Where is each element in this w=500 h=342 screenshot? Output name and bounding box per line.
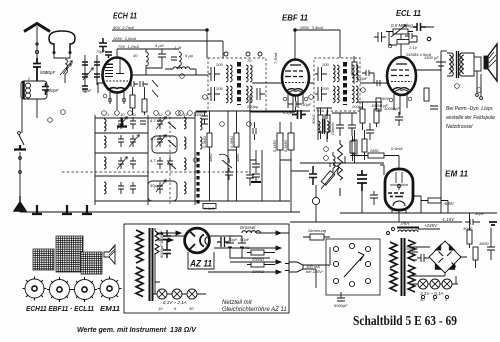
selector contact 1 xyxy=(333,246,338,251)
circled number g xyxy=(220,122,225,127)
node terminal bd3 xyxy=(445,295,448,298)
capacitor ECL grid a xyxy=(362,70,374,76)
selector contact 8 xyxy=(365,278,370,283)
node IFT1 terminals xyxy=(224,52,228,56)
capacitor trimmer 3 xyxy=(82,74,88,77)
svg-text:6 µµ: 6 µµ xyxy=(185,53,194,58)
resistor right 1 xyxy=(467,230,472,244)
resistor mid 1 xyxy=(318,115,323,132)
capacitor 3000pF psu xyxy=(163,230,171,245)
svg-text:anstelle der Feldspule: anstelle der Feldspule xyxy=(446,115,495,121)
node loop terminal left xyxy=(53,51,55,53)
svg-text:0,1MΩ: 0,1MΩ xyxy=(283,140,288,152)
node antenna terminal xyxy=(36,43,38,45)
tube AZ11 internals xyxy=(190,232,195,250)
rectifier bridge xyxy=(429,241,461,273)
wire grid link xyxy=(354,56,388,84)
svg-text:30: 30 xyxy=(133,53,138,58)
wire IFT2 top feed xyxy=(339,30,341,58)
svg-text:30µF: 30µF xyxy=(228,237,238,242)
switch arm 3 xyxy=(168,162,176,169)
wire AVC dashed xyxy=(62,171,250,173)
output transformer core xyxy=(457,51,459,78)
coil L1 oscillator xyxy=(65,57,67,73)
wire EBF11 anode top xyxy=(295,30,340,60)
switch osc xyxy=(152,80,158,97)
svg-text:285V 3,4mA: 285V 3,4mA xyxy=(299,25,323,30)
resistor 2000ohm xyxy=(251,262,264,267)
wire speaker terminals xyxy=(477,71,481,96)
capacitor elko 2 xyxy=(238,236,246,252)
jack circle xyxy=(312,197,319,204)
circled number e xyxy=(179,111,184,116)
capacitor IFT2 top xyxy=(315,67,327,81)
output transformer secondary xyxy=(460,53,468,76)
node terminal bd1 xyxy=(421,295,424,298)
capacitor IFT1 right xyxy=(257,88,265,100)
capacitor out xyxy=(430,106,438,109)
wire filament taps xyxy=(152,228,160,294)
node pin circles EBF11 xyxy=(283,97,308,101)
coil IFT1 secondary top xyxy=(246,65,252,82)
svg-text:Bei Perm.-Dyn. Ltspr.: Bei Perm.-Dyn. Ltspr. xyxy=(446,106,494,112)
svg-text:AZ 11: AZ 11 xyxy=(189,259,212,270)
socket layout EBF11 grid xyxy=(56,236,83,272)
capacitor screen a xyxy=(99,38,107,52)
resistor EM11 grid xyxy=(368,153,384,158)
capacitor det b2 bold xyxy=(292,110,306,119)
svg-text:4,7-30: 4,7-30 xyxy=(150,136,162,141)
circled number l xyxy=(309,95,314,100)
speaker cone xyxy=(488,44,497,81)
winding 7mA top xyxy=(398,230,418,232)
wire det rails xyxy=(210,111,292,201)
svg-text:2: 2 xyxy=(27,76,31,81)
resistor ECL11 grid xyxy=(352,62,357,75)
wire em aux xyxy=(354,130,356,163)
coil band B2 xyxy=(184,137,186,149)
svg-text:30µF: 30µF xyxy=(463,226,473,231)
circled number f xyxy=(194,158,199,163)
circled pin 12 xyxy=(324,147,329,161)
output transformer primary xyxy=(447,53,453,76)
resistor mid 3 xyxy=(360,109,365,123)
capacitor right top xyxy=(465,219,480,225)
wire ECH11 pins xyxy=(98,83,124,110)
coil can row2 xyxy=(152,136,177,153)
node pin circles ECL11 xyxy=(389,97,412,102)
selector contact 5 xyxy=(365,261,370,266)
capacitor 10uF xyxy=(288,101,302,107)
socket layout ECH11 grid xyxy=(33,249,54,270)
wire jack xyxy=(291,160,316,222)
capacitor tuned 4a xyxy=(118,182,124,194)
wire EM11 links xyxy=(350,156,399,176)
capacitor det d xyxy=(309,166,317,185)
core tuning dashed bar xyxy=(196,152,199,205)
wire rect links xyxy=(412,247,467,276)
capacitor IFT2 bottom xyxy=(315,87,327,101)
resistor EM11 2b xyxy=(362,139,367,152)
node loop terminal right xyxy=(69,51,71,53)
selector contact 4 xyxy=(333,261,338,266)
resistor osc 2 xyxy=(142,99,147,112)
wire psu exits xyxy=(208,233,281,272)
core IFT1 dashed bar xyxy=(237,62,241,105)
wire right column xyxy=(470,213,492,268)
ground bar left xyxy=(14,145,26,150)
trimmer arrow 8 xyxy=(63,64,71,74)
svg-text:3: 3 xyxy=(107,112,110,117)
speaker cone hatch xyxy=(489,52,496,67)
capacitor 10000pF xyxy=(395,112,403,126)
coil L3 xyxy=(179,52,181,66)
tube ECL11 envelope xyxy=(387,57,416,95)
svg-text:14Ω: 14Ω xyxy=(242,245,250,250)
svg-text:0,3MΩ: 0,3MΩ xyxy=(229,136,234,148)
potentiometer volume xyxy=(393,29,408,34)
tube EBF11 internals xyxy=(285,65,303,77)
ground tuning xyxy=(117,118,127,127)
svg-text:12: 12 xyxy=(158,112,163,117)
resistor em 3 xyxy=(428,198,441,203)
lamp heater 1 xyxy=(157,289,167,299)
capacitor IFT1 bottom xyxy=(208,87,220,101)
svg-text:200: 200 xyxy=(215,62,223,67)
trimmer arrow 5 xyxy=(156,135,166,147)
wire osc bottom xyxy=(133,87,145,115)
svg-text:13: 13 xyxy=(183,112,188,117)
svg-text:200µµ: 200µµ xyxy=(351,104,364,109)
wire bus -6.5V xyxy=(340,212,497,214)
node junction 90V xyxy=(206,29,209,32)
resistor 1,5k xyxy=(203,204,216,209)
coil tuned 1 xyxy=(104,119,106,131)
wire tuning rail A xyxy=(95,112,195,205)
capacitor mid 2 xyxy=(348,117,356,136)
wire antenna lead xyxy=(36,26,38,58)
resistor det 3b xyxy=(288,133,294,150)
svg-text:3,3V ~ 0,1A: 3,3V ~ 0,1A xyxy=(420,291,444,296)
svg-text:Sicherung: Sicherung xyxy=(308,228,327,233)
svg-text:1MΩ: 1MΩ xyxy=(235,153,240,162)
wire IFT1 to EBF11 xyxy=(252,82,282,84)
svg-text:EM 11: EM 11 xyxy=(445,169,468,179)
coil tuned 2 xyxy=(104,136,106,148)
transformer secondary zigzag xyxy=(408,240,415,292)
fuse xyxy=(310,234,324,240)
svg-text:50µF: 50µF xyxy=(240,237,250,242)
node pot terminal xyxy=(388,44,392,48)
capacitor trimmer 4 xyxy=(94,74,100,77)
svg-text:2000Ω: 2000Ω xyxy=(251,269,264,274)
wire det branch xyxy=(250,150,256,160)
tube EBF11 envelope xyxy=(282,60,309,96)
selector contact 6 xyxy=(333,278,338,283)
wire ECL11 pins xyxy=(394,93,407,115)
svg-text:EM11: EM11 xyxy=(100,304,120,313)
socket EBF11 base xyxy=(47,277,72,302)
selector contact 2 xyxy=(349,243,354,248)
ground G4 xyxy=(82,205,92,214)
svg-text:Gleichrichterröhre AZ 11: Gleichrichterröhre AZ 11 xyxy=(222,307,287,313)
svg-text:10: 10 xyxy=(420,297,425,302)
svg-text:+245V: +245V xyxy=(424,223,438,228)
svg-text:4 µH: 4 µH xyxy=(155,43,164,48)
svg-text:Werte gem. mit Instrument 138: Werte gem. mit Instrument 138 Ω/V xyxy=(77,325,197,334)
node EBF dot xyxy=(294,29,297,32)
coil antenna circles xyxy=(26,83,31,88)
antenna xyxy=(24,24,50,32)
capacitor tuned 3b xyxy=(130,157,136,169)
capacitor det e xyxy=(246,168,254,186)
coil IFT2 primary bottom xyxy=(333,86,339,103)
capacitor screen b xyxy=(105,52,112,58)
svg-text:4,7-30: 4,7-30 xyxy=(150,118,162,123)
svg-text:10µF: 10µF xyxy=(302,102,312,107)
lamp heater 2 xyxy=(172,289,182,299)
svg-text:Netzteil mit: Netzteil mit xyxy=(222,300,252,306)
svg-text:Gleichr.: Gleichr. xyxy=(330,121,335,135)
svg-text:10: 10 xyxy=(120,112,125,117)
tube EM11 internals xyxy=(390,172,408,190)
svg-text:EBF 11: EBF 11 xyxy=(282,13,308,23)
ground right top xyxy=(489,222,497,225)
capacitor tuned 2a xyxy=(118,135,124,147)
wire loop to coil xyxy=(54,52,70,58)
wire IFT1 feed xyxy=(206,30,208,58)
svg-text:30: 30 xyxy=(189,306,194,311)
tube ECH11 envelope xyxy=(103,58,132,93)
resistor mid 4 xyxy=(374,109,379,123)
wire em r3 xyxy=(421,201,448,214)
coil right col r1 xyxy=(200,118,202,130)
svg-text:6,3V ~ 2,1A: 6,3V ~ 2,1A xyxy=(163,300,187,305)
selector contact 3 xyxy=(365,246,370,251)
svg-text:200: 200 xyxy=(321,62,329,67)
capacitor elko 1 xyxy=(226,236,234,252)
svg-text:5000pF: 5000pF xyxy=(159,244,164,258)
wire 90V rail xyxy=(112,29,207,31)
wire psu mid xyxy=(230,252,275,265)
capacitor mid 3 xyxy=(366,123,374,140)
wire ECL grid xyxy=(360,73,388,83)
ground G3 xyxy=(62,205,72,214)
trimmer arrow 3 xyxy=(117,157,127,169)
capacitor band 3 xyxy=(157,157,163,169)
resistor fb xyxy=(321,171,335,186)
coil osc horizontal xyxy=(165,67,196,69)
transformer AZ filament winding xyxy=(155,231,159,254)
capacitor tuned 1c xyxy=(140,121,146,124)
wire +245V xyxy=(418,228,440,230)
wire under IFT bus xyxy=(196,110,310,112)
wire coil down xyxy=(64,74,66,84)
capacitor tuned 3a xyxy=(118,157,124,169)
resistor 1M horizontal xyxy=(397,40,409,45)
wire agc xyxy=(333,136,353,172)
wire 285V rail xyxy=(112,41,223,58)
trimmer arrow 1 xyxy=(117,117,127,129)
capacitor band 2 xyxy=(157,135,163,147)
wire output top xyxy=(441,50,447,52)
svg-text:700Ω: 700Ω xyxy=(193,112,203,117)
svg-text:70pF: 70pF xyxy=(96,49,106,54)
svg-text:10: 10 xyxy=(158,306,163,311)
core IFT2 dashed bar xyxy=(343,62,347,105)
svg-text:50V: 50V xyxy=(382,96,389,101)
voltage selector box xyxy=(326,239,380,295)
transformer core right xyxy=(402,238,405,296)
coil L2 xyxy=(146,49,148,68)
wire em2b xyxy=(364,130,366,160)
svg-text:285V 3,0mA: 285V 3,0mA xyxy=(112,36,136,41)
wire det t links xyxy=(318,108,327,142)
capacitor band 1 xyxy=(157,117,163,129)
potentiometer feedback xyxy=(321,165,339,189)
resistor right 2 xyxy=(473,247,478,260)
transformer primary zigzag xyxy=(390,242,397,291)
svg-text:ECL 11: ECL 11 xyxy=(396,8,421,18)
circled number b xyxy=(115,111,120,116)
svg-text:0,3MΩ: 0,3MΩ xyxy=(202,136,207,148)
circled 30 xyxy=(180,74,185,79)
resistor det 3 xyxy=(277,133,283,150)
wire sec taps xyxy=(412,247,456,284)
capacitor det f xyxy=(225,168,233,180)
node terminal bd2 xyxy=(433,295,436,298)
svg-text:1,2k: 1,2k xyxy=(174,45,183,50)
capacitor tuned 1b xyxy=(130,117,136,129)
svg-text:ECH 11: ECH 11 xyxy=(113,11,137,21)
trimmer bank wire xyxy=(85,55,97,85)
svg-text:3000pF: 3000pF xyxy=(159,230,164,244)
switch det xyxy=(222,160,232,168)
svg-text:-1,15V: -1,15V xyxy=(441,217,455,222)
svg-text:Schaltbild 5 E 63 - 69: Schaltbild 5 E 63 - 69 xyxy=(353,313,457,328)
node trafo terminals xyxy=(387,232,390,235)
capacitor det c xyxy=(252,157,260,173)
wire trimmer stubs xyxy=(85,77,97,93)
lamp dial 3 xyxy=(442,279,452,289)
switch left xyxy=(19,135,24,145)
circled number n xyxy=(477,88,482,93)
capacitor osc b2 xyxy=(140,81,148,87)
ground G2 xyxy=(32,205,42,214)
tube ECL11 internals xyxy=(391,64,409,76)
tube EM11 envelope xyxy=(385,169,413,210)
svg-text:2,1V: 2,1V xyxy=(408,45,418,50)
trimmer arrow osc xyxy=(60,61,72,75)
frame antenna loop xyxy=(49,31,75,52)
socket ECL11 base xyxy=(72,277,97,302)
svg-text:1MΩ: 1MΩ xyxy=(208,153,213,162)
capacitor band 3b xyxy=(167,157,173,169)
svg-text:10000pF: 10000pF xyxy=(384,106,400,111)
transformer det small xyxy=(318,119,329,134)
wire mid2 xyxy=(316,108,332,139)
circled number j xyxy=(48,118,53,123)
wire mid verticals xyxy=(228,111,262,201)
tube AZ11 envelope xyxy=(185,228,210,253)
speaker voice coil xyxy=(474,57,481,71)
circled number m xyxy=(361,88,366,93)
wire heater row xyxy=(152,293,206,295)
socket ECH11 base xyxy=(23,277,47,301)
trimmer arrow 7 xyxy=(83,68,93,80)
wire mid2b xyxy=(332,113,357,117)
circled number o1 xyxy=(166,111,193,116)
transformer heater winding zigzag xyxy=(136,230,143,297)
resistor det 1 xyxy=(207,133,212,147)
svg-text:40pF: 40pF xyxy=(82,88,92,93)
speaker mini icon xyxy=(104,245,115,264)
resistor osc 1 xyxy=(130,95,135,108)
svg-text:1: 1 xyxy=(445,297,447,302)
capacitor az right xyxy=(217,237,229,247)
capacitor osc b1 xyxy=(128,81,138,87)
svg-text:4,7: 4,7 xyxy=(150,158,156,163)
svg-text:5000pF: 5000pF xyxy=(40,70,56,75)
wire det to EM11 xyxy=(300,156,384,167)
trimmer arrow 6 xyxy=(156,180,166,192)
coil IFT1 secondary bottom xyxy=(246,86,252,103)
coil IFT2 primary top xyxy=(333,65,339,82)
switch shaft dashed xyxy=(169,112,171,205)
node speaker terminal 1 xyxy=(476,94,479,97)
wire ECL11 anode out xyxy=(416,51,441,213)
wire EM11 pins xyxy=(392,208,406,222)
socket layout ECL11 grid xyxy=(81,252,102,274)
ground det xyxy=(251,181,261,183)
coil tuned 3 xyxy=(104,157,106,169)
IF transformer 2 box xyxy=(314,58,360,111)
capacitor 1500uF xyxy=(436,55,446,72)
svg-text:50µF: 50µF xyxy=(475,211,485,216)
coil IFT1 primary top xyxy=(226,65,232,82)
capacitor ECL grid b xyxy=(374,80,385,86)
wire coil box down xyxy=(22,66,37,133)
capacitor 5000pF mains xyxy=(337,292,345,301)
svg-text:-6,5V: -6,5V xyxy=(443,201,455,206)
wire mid2c xyxy=(357,102,382,130)
wire ECL11 top xyxy=(400,44,402,57)
capacitor tuned 2b xyxy=(130,135,136,147)
resistor zigzag vertical xyxy=(338,140,343,196)
svg-text:50µµ: 50µµ xyxy=(150,183,160,188)
svg-text:500pF: 500pF xyxy=(46,88,59,93)
transformer core left xyxy=(150,228,153,301)
svg-text:Drossel: Drossel xyxy=(240,225,256,230)
socket EM11 base xyxy=(98,277,122,301)
selector contact 7 xyxy=(349,281,354,286)
capacitor em 1 bold stack xyxy=(357,170,367,191)
circled number c xyxy=(128,111,133,116)
svg-text:1500 µF: 1500 µF xyxy=(424,55,439,60)
capacitor bridge left xyxy=(417,254,429,262)
svg-text:9: 9 xyxy=(433,297,436,302)
capacitor 5000pF antenna xyxy=(33,58,41,81)
wire bus -1.15V xyxy=(290,221,462,223)
wire det verticals xyxy=(280,95,296,201)
capacitor mid 1 xyxy=(336,117,344,136)
wire tuning row lines xyxy=(95,118,290,201)
resistor ECL11 screen xyxy=(424,88,429,101)
antenna coil T1 xyxy=(21,81,47,99)
capacitor IFT1 top xyxy=(208,67,220,81)
svg-text:7,5mA: 7,5mA xyxy=(273,52,278,64)
coil agc choke xyxy=(333,156,335,168)
